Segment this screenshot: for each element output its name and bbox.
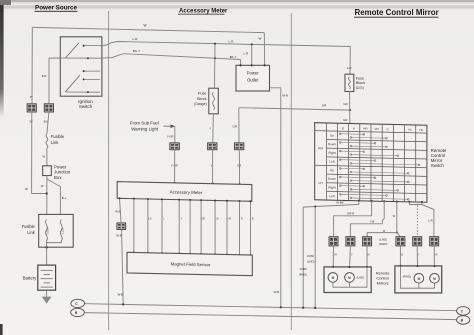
pin dot at accessory meter (gauge wire) bbox=[212, 183, 214, 185]
wire: C2 down to fusible link bbox=[47, 112, 49, 134]
svg-text:GR: GR bbox=[343, 118, 347, 122]
svg-text:Y-R: Y-R bbox=[227, 217, 231, 221]
wire W: C1 down to junction bbox=[32, 112, 47, 194]
svg-text:W: W bbox=[41, 184, 44, 188]
svg-text:B-R: B-R bbox=[42, 74, 47, 78]
wire: MR2 bottom stub bbox=[434, 283, 436, 288]
connector block M1 (hatched) bbox=[329, 237, 338, 246]
svg-text:M: M bbox=[332, 276, 335, 280]
svg-text:L-R: L-R bbox=[133, 37, 139, 41]
wire W branch to connector M3 bbox=[367, 233, 397, 237]
svg-text:Accessory Meter: Accessory Meter bbox=[179, 8, 228, 14]
ignition switch contact row 2 (pin ACC) bbox=[60, 57, 100, 59]
wire: M5 to right mirror motor bbox=[416, 246, 418, 273]
svg-text:Y: Y bbox=[181, 217, 183, 221]
pin dot LH mirror 2 bbox=[348, 266, 350, 268]
wire: connector C4 to accessory meter bbox=[212, 150, 214, 184]
svg-text:Left: Left bbox=[329, 160, 334, 164]
pin dot RH mirror 3 bbox=[433, 265, 435, 267]
wire (dashed option) to connector M5 bbox=[416, 205, 418, 236]
svg-text:Power: Power bbox=[247, 71, 260, 76]
svg-text:W: W bbox=[143, 24, 146, 28]
fusible link box internal bus bbox=[47, 241, 62, 243]
svg-text:Switch: Switch bbox=[79, 104, 93, 109]
connector block C3 (hatched) bbox=[170, 143, 180, 150]
connector block M4 (hatched) bbox=[396, 237, 405, 246]
wire L-R drop to power outlet bbox=[251, 45, 253, 66]
wire W-B: meter ground down to bus line 1 bbox=[122, 230, 124, 305]
wire: LH mirror internal common bus bbox=[333, 267, 367, 287]
connector block C2 (hatched) bbox=[44, 104, 53, 112]
wire B-L: J1 branch to fusible link box bbox=[47, 179, 61, 214]
motor ML1 bbox=[328, 273, 338, 283]
wire Y-B: table to connector M2 bbox=[350, 201, 384, 236]
remote control mirror switch table bbox=[315, 123, 427, 203]
node C (page connector, left top) bbox=[71, 299, 85, 307]
junction: L-R to gauge fuse tap bbox=[214, 43, 216, 45]
svg-text:W-BK: W-BK bbox=[336, 201, 344, 205]
svg-text:M: M bbox=[433, 277, 436, 281]
motor ML2 bbox=[345, 273, 355, 283]
wire BK-Y (feed line) bbox=[100, 54, 241, 60]
svg-text:W-BK: W-BK bbox=[300, 267, 307, 271]
wire: M6 to right mirror motor bbox=[433, 246, 435, 273]
svg-text:Block: Block bbox=[197, 96, 207, 101]
svg-text:RH: RH bbox=[318, 146, 323, 150]
wire GR drop to connector bbox=[238, 108, 240, 143]
svg-text:GR: GR bbox=[201, 217, 205, 221]
battery ground wire bbox=[46, 290, 48, 297]
accessory meter box bbox=[117, 182, 252, 202]
wire W-B: power outlet ground to bus line 1 bbox=[270, 88, 281, 307]
svg-text:Right: Right bbox=[328, 151, 335, 155]
svg-text:Fusible: Fusible bbox=[22, 224, 36, 229]
svg-text:Link: Link bbox=[27, 230, 35, 235]
svg-text:Right: Right bbox=[328, 185, 335, 189]
svg-text:Magnet Field Sensor: Magnet Field Sensor bbox=[171, 261, 211, 267]
battery plate 3 bbox=[41, 278, 53, 280]
svg-text:GR-R: GR-R bbox=[347, 211, 354, 215]
svg-text:(RHD): (RHD) bbox=[379, 242, 387, 246]
svg-text:(RHD): (RHD) bbox=[299, 272, 307, 276]
wire: connector C3 to accessory meter bbox=[174, 150, 176, 183]
svg-text:E: E bbox=[353, 126, 355, 130]
section divider line 1 bbox=[108, 11, 110, 330]
pin dot BK-Y at power outlet bbox=[240, 64, 242, 66]
junction on bus line1 (LHD ground) bbox=[314, 307, 316, 309]
wire: M4 to right mirror common bbox=[399, 246, 401, 266]
svg-text:W-B: W-B bbox=[274, 290, 280, 294]
wire GR-R: table to connector M1 bbox=[334, 201, 372, 237]
svg-text:R: R bbox=[241, 217, 243, 221]
svg-text:W: W bbox=[42, 155, 45, 159]
remote control mirror LH box bbox=[324, 267, 371, 293]
fuse element (C/G) bbox=[348, 77, 350, 89]
ignition switch SW box bbox=[60, 37, 102, 96]
wire: accessory meter to magnet field sensor #8 bbox=[226, 201, 228, 255]
junction: GR tap on fuse C/G output bbox=[349, 109, 351, 111]
svg-text:Fusible: Fusible bbox=[51, 134, 65, 139]
battery B1 box bbox=[38, 265, 56, 290]
fusible link FL1 symbol bbox=[46, 134, 48, 149]
svg-text:Remote Control Mirror: Remote Control Mirror bbox=[355, 8, 439, 17]
pin dot LH mirror 3 bbox=[366, 266, 368, 268]
section divider line 2 bbox=[290, 13, 292, 330]
pin dot L-R at power outlet bbox=[251, 64, 253, 66]
wire: M3 to left mirror common bbox=[366, 246, 368, 267]
wire: accessory meter to magnet field sensor #4 bbox=[178, 200, 180, 254]
svg-text:0.85W: 0.85W bbox=[47, 227, 50, 235]
ground symbol (battery) bbox=[42, 297, 52, 304]
wire GR (feed to accessory meter) bbox=[239, 108, 350, 110]
svg-text:W-B: W-B bbox=[118, 292, 124, 296]
svg-text:1.25B: 1.25B bbox=[61, 227, 64, 234]
battery plate 2 bbox=[44, 274, 50, 276]
junction on bus line1 (RHD ground) bbox=[302, 307, 304, 309]
svg-text:(LHD): (LHD) bbox=[356, 276, 364, 280]
svg-text:Accessory Meter: Accessory Meter bbox=[170, 189, 203, 195]
svg-text:(C/G): (C/G) bbox=[356, 86, 364, 90]
table column lines bbox=[326, 123, 328, 200]
fusible link box FL2 bbox=[39, 214, 73, 247]
svg-text:M: M bbox=[418, 277, 421, 281]
svg-text:(LHD): (LHD) bbox=[379, 238, 387, 242]
pin dot at accessory meter (Y-GR wire) bbox=[174, 182, 176, 184]
svg-text:LG: LG bbox=[148, 217, 151, 221]
svg-text:W-B: W-B bbox=[115, 209, 121, 213]
wire: gauge fuse down to connector bbox=[212, 114, 215, 143]
svg-text:B-L: B-L bbox=[62, 196, 67, 200]
arrow lead from sub fuel warning light bbox=[164, 125, 172, 127]
svg-text:Y-GR: Y-GR bbox=[167, 135, 174, 139]
svg-text:L-R: L-R bbox=[229, 40, 235, 44]
wire: bottom bus line 1 (node C to node C) bbox=[85, 304, 457, 311]
remote control mirror RH box bbox=[395, 266, 442, 293]
svg-text:B: B bbox=[252, 217, 254, 221]
wire: fusible link box to battery bbox=[46, 248, 48, 266]
junction: BK-Y to gauge fuse bbox=[214, 57, 216, 59]
ignition switch contact row 3 (pin ST) bbox=[83, 70, 100, 72]
node B (page connector, right bottom) bbox=[457, 316, 470, 325]
svg-text:W: W bbox=[393, 214, 396, 218]
connector block C4 (hatched) bbox=[208, 143, 217, 150]
svg-text:Down: Down bbox=[328, 142, 336, 146]
power outlet box bbox=[236, 65, 270, 91]
wire: accessory meter to magnet field sensor #6 bbox=[200, 200, 202, 254]
magnet field sensor box bbox=[127, 252, 252, 275]
motor MR1 bbox=[414, 274, 424, 284]
table contact marks bbox=[340, 133, 364, 136]
wire W-B: accessory meter ground upper bbox=[120, 198, 122, 222]
wire W-BK: switch ground drop (LHD) bbox=[314, 207, 316, 308]
svg-text:(RHD): (RHD) bbox=[403, 275, 411, 279]
ignition switch blade 1 bbox=[65, 43, 79, 58]
svg-text:HL: HL bbox=[419, 128, 423, 132]
motor MR2 bbox=[430, 274, 440, 284]
junction at fusible link box bottom bbox=[45, 246, 47, 248]
wire L-R: merged drop to connector M6 bbox=[422, 202, 434, 237]
junction node (W wires) bbox=[46, 192, 48, 194]
junction: L-R to power outlet bbox=[251, 43, 253, 45]
pin dot RH mirror 2 bbox=[417, 265, 419, 267]
svg-text:Up: Up bbox=[330, 134, 334, 138]
arrowhead (from sub fuel warning light) bbox=[171, 124, 176, 128]
wire: accessory meter to magnet field sensor #2 bbox=[147, 199, 149, 253]
wire: C2 up to ignition switch feed bbox=[49, 58, 60, 104]
connector block M5 (hatched) bbox=[413, 237, 422, 246]
power junction box J1 bbox=[43, 166, 52, 176]
svg-text:Block: Block bbox=[356, 81, 365, 85]
battery plate 1 bbox=[41, 269, 53, 271]
connector block M3 (hatched) bbox=[363, 237, 372, 246]
wire: tap down to gauge fuse block bbox=[214, 44, 217, 88]
wire: J1 down to fusible link box bbox=[46, 176, 48, 215]
ignition switch blade 2 bbox=[65, 75, 80, 92]
svg-text:Left: Left bbox=[329, 194, 334, 198]
wire GR: fuse C/G to mirror switch table bbox=[349, 92, 351, 124]
svg-text:Box: Box bbox=[54, 175, 62, 180]
ignition switch contact row 4 (pin IG1) bbox=[83, 78, 100, 80]
pin dot at accessory meter (GR wire) bbox=[239, 183, 241, 185]
battery plate 4 bbox=[44, 282, 50, 284]
svg-text:W: W bbox=[258, 36, 261, 40]
wire: MR1 bottom stub bbox=[418, 283, 420, 288]
node C (page connector, right top) bbox=[457, 307, 470, 316]
fuse element (Gauge) bbox=[213, 92, 215, 110]
table bottom pin dots bbox=[358, 200, 360, 202]
svg-text:Mirrors: Mirrors bbox=[377, 280, 389, 285]
wire: M2 to left mirror motor bbox=[349, 246, 350, 272]
wire L-R (feed line) bbox=[100, 42, 350, 47]
wire: accessory meter to magnet field sensor #3 bbox=[161, 199, 163, 253]
wire W drop to power outlet bbox=[263, 33, 265, 66]
svg-text:Y: Y bbox=[351, 253, 353, 257]
wire: accessory meter to magnet field sensor #1 bbox=[133, 199, 135, 253]
fuse block (Gauge) bbox=[209, 88, 219, 114]
battery plate 5 bbox=[41, 286, 53, 288]
wire: M1 to left mirror motor bbox=[332, 246, 334, 272]
svg-text:L-R: L-R bbox=[428, 219, 433, 223]
svg-text:Fuse: Fuse bbox=[356, 76, 364, 80]
wire W: table down bbox=[396, 202, 398, 233]
svg-text:L-R: L-R bbox=[347, 66, 353, 70]
wire: connector C5 to accessory meter bbox=[238, 150, 240, 184]
wire BK-Y drop to power outlet bbox=[240, 60, 242, 66]
svg-text:Y: Y bbox=[418, 253, 420, 257]
wire: RH mirror internal common bus bbox=[400, 266, 434, 288]
svg-text:Power Source: Power Source bbox=[35, 5, 77, 12]
table row lines bbox=[327, 140, 427, 142]
fusible link element FL2a bbox=[46, 220, 48, 242]
wire Y-GR from warning light down bbox=[174, 126, 176, 143]
connector block M2 (hatched) bbox=[346, 237, 355, 246]
svg-text:W-B: W-B bbox=[116, 234, 122, 238]
svg-text:Y: Y bbox=[209, 126, 211, 130]
svg-text:LH: LH bbox=[318, 181, 323, 185]
svg-text:Switch: Switch bbox=[431, 163, 445, 168]
svg-text:GR: GR bbox=[343, 102, 347, 106]
svg-text:VL: VL bbox=[408, 128, 412, 132]
wire: bottom bus line 2 (node B to node B) bbox=[84, 313, 456, 320]
wire W branch to connector M4 bbox=[397, 233, 401, 237]
svg-text:Y-B: Y-B bbox=[370, 220, 375, 224]
junction W-BK split bbox=[314, 206, 316, 208]
svg-text:W-B: W-B bbox=[282, 94, 288, 98]
junction: meter ground on bus line 1 bbox=[122, 303, 124, 305]
svg-text:From Sub Fuel: From Sub Fuel bbox=[130, 121, 159, 126]
svg-text:B: B bbox=[342, 126, 344, 130]
fusible link element FL2b bbox=[60, 220, 62, 242]
node B (page connector, left bottom) bbox=[71, 308, 85, 316]
svg-text:BK-Y: BK-Y bbox=[133, 49, 140, 53]
junction: W-B on bus line 1 bbox=[280, 306, 282, 308]
wire L-R drop to fuse block C/G bbox=[349, 47, 351, 75]
pin dot RH mirror 1 bbox=[399, 265, 401, 267]
table header row line bbox=[315, 131, 427, 134]
fuse block (C/G) bbox=[345, 74, 354, 91]
svg-text:Down: Down bbox=[328, 177, 336, 181]
wire W-BK: switch ground left and down (RHD) bbox=[303, 201, 359, 308]
pin dot meter ground bbox=[119, 197, 121, 199]
wire: accessory meter to magnet field sensor #5 bbox=[189, 200, 191, 254]
wire W: C1 up to top W line bbox=[31, 27, 33, 103]
wire W (top feed line) bbox=[32, 27, 264, 32]
svg-text:Link: Link bbox=[51, 140, 59, 145]
wire: table exit 5 to merge bbox=[409, 202, 422, 205]
connector block C5 (hatched) bbox=[235, 143, 244, 150]
wire: accessory meter to magnet field sensor #10 bbox=[250, 201, 252, 255]
connector block C1 (hatched) bbox=[27, 104, 36, 112]
svg-text:W: W bbox=[25, 187, 28, 191]
svg-text:W-BK: W-BK bbox=[307, 254, 314, 258]
connector block C6 (hatched) bbox=[117, 223, 126, 230]
svg-text:GR: GR bbox=[232, 125, 236, 129]
connector block M6 (hatched) bbox=[430, 237, 439, 246]
pin dot LH mirror 1 bbox=[332, 266, 334, 268]
svg-text:Warning Light: Warning Light bbox=[131, 127, 159, 132]
junction W branch bbox=[396, 232, 398, 234]
wire: ML1 bottom stub bbox=[332, 282, 334, 287]
svg-text:Up: Up bbox=[330, 168, 334, 172]
pin dot W at power outlet bbox=[264, 64, 266, 66]
svg-text:BK-Y: BK-Y bbox=[230, 55, 237, 59]
svg-text:Outlet: Outlet bbox=[247, 78, 259, 83]
svg-text:Battery: Battery bbox=[23, 275, 37, 280]
wire: FL1 to power junction box bbox=[46, 148, 48, 166]
wire: ML2 bottom stub bbox=[349, 282, 351, 287]
ignition switch contact row 5 (pin IG2) bbox=[65, 91, 100, 93]
wire: accessory meter to magnet field sensor #9 bbox=[239, 201, 241, 255]
wire: accessory meter to magnet field sensor #7 bbox=[214, 200, 216, 254]
svg-text:(LHD): (LHD) bbox=[307, 259, 315, 263]
fusible link box exit wire bbox=[46, 243, 48, 248]
svg-text:(Gauge): (Gauge) bbox=[194, 102, 206, 106]
svg-text:M: M bbox=[348, 276, 351, 280]
ignition switch contact row 1 (pin AM) bbox=[83, 45, 100, 47]
svg-text:L-R: L-R bbox=[243, 52, 249, 56]
